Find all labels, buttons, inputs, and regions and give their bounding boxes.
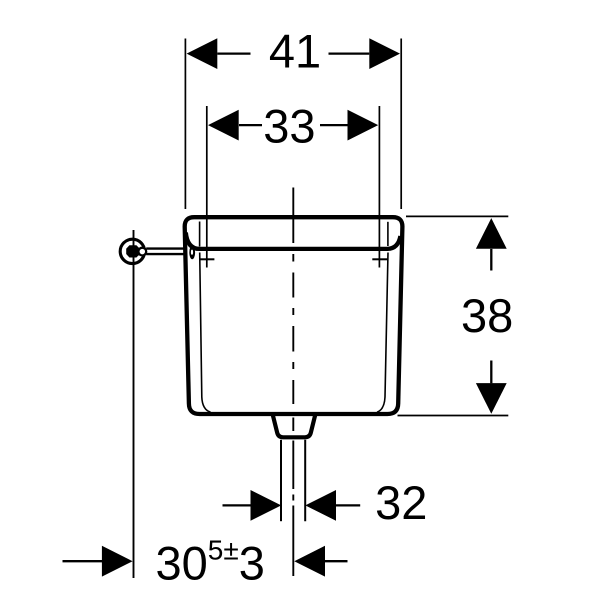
svg-text:32: 32: [375, 476, 427, 529]
dim 33 extension line left: [206, 106, 208, 268]
dim 41 arrow right: [369, 38, 400, 69]
supply pipe bottom wall: [146, 253, 184, 255]
svg-text:41: 41: [269, 25, 321, 78]
flush pipe wall left: [280, 440, 282, 521]
dim 38 line top segment: [490, 249, 492, 271]
dim 41 arrow left: [187, 38, 218, 69]
supply valve hexagon: [126, 245, 140, 257]
dim 32 line right: [336, 504, 360, 506]
dim 30 arrow left: [102, 546, 133, 577]
svg-text:305±3: 305±3: [156, 535, 265, 590]
dim 41 extension line right: [400, 39, 402, 210]
lid inner line left: [199, 222, 201, 247]
cistern lid bottom edge: [186, 233, 401, 249]
inlet fitting inside tank: [189, 246, 195, 260]
supply pipe top wall: [146, 247, 184, 249]
dim 33 extension line right: [378, 106, 380, 268]
supply valve small ring: [138, 248, 146, 256]
dim 33 line left segment: [239, 124, 262, 126]
outlet connector trapezoid: [273, 415, 315, 437]
dim 33 line right segment: [320, 124, 348, 126]
dim 38 extension line top: [406, 215, 508, 217]
dim 32 arrow left: [251, 490, 282, 521]
inner wall left: [200, 253, 211, 413]
dim 41 line right segment: [329, 52, 370, 54]
dim 38 extension line bottom: [398, 415, 509, 417]
inner wall right: [377, 253, 388, 413]
dim 41 line left segment: [217, 52, 250, 54]
dim 38 arrow up: [476, 218, 507, 249]
svg-text:38: 38: [461, 289, 513, 342]
dim 33 arrow right: [348, 110, 379, 141]
cistern outer body: [185, 217, 403, 414]
dim 30 arrow right: [294, 546, 325, 577]
dim 32 arrow right: [305, 490, 336, 521]
dim 30 line left: [63, 560, 104, 562]
dim 33 cross right: [372, 258, 387, 260]
dim 33 arrow left: [208, 110, 239, 141]
dim 33 cross left: [200, 258, 215, 260]
center line of tank and pipe (dashed): [292, 188, 294, 577]
supply valve outer circle: [120, 239, 144, 263]
dim 38 arrow down: [476, 383, 507, 414]
lid inner line right: [387, 222, 389, 246]
dim 30 line right: [325, 560, 348, 562]
flush pipe wall right: [304, 440, 306, 521]
dim 32 line left: [223, 504, 252, 506]
dim 41 extension line left: [184, 39, 186, 210]
water supply center line (vertical, left): [133, 230, 135, 578]
dim 38 line bottom segment: [490, 361, 492, 384]
svg-text:33: 33: [263, 99, 315, 152]
